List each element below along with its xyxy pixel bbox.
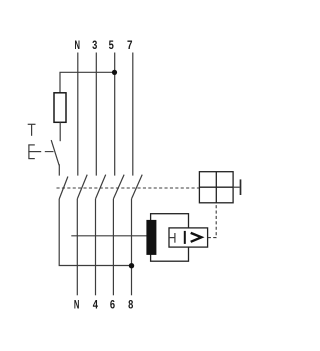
wire current transformer primary line: [71, 235, 146, 237]
trip relay symbol greater-than: [191, 233, 202, 242]
terminal label 3 top: [92, 38, 97, 52]
svg-text:N: N: [74, 298, 80, 312]
dashed actuator link to test contact: [45, 151, 54, 153]
trip unit enclosure box: [151, 214, 189, 262]
wire pole 7 upper: [132, 53, 134, 176]
main contact blade pole N: [77, 175, 87, 199]
svg-text:3: 3: [92, 38, 97, 52]
mechanism handle lead: [233, 186, 240, 188]
main contact blade pole 7-8: [132, 175, 143, 199]
resistor (test resistor): [54, 93, 66, 123]
dashed mechanism linkage: [57, 187, 200, 189]
trip relay box: [169, 228, 208, 247]
wire test branch lower: [59, 199, 131, 266]
wire resistor bottom lead: [59, 122, 61, 141]
test button label T: [28, 124, 36, 136]
trip relay symbol I: [184, 231, 186, 244]
wire pole 5 upper: [114, 53, 116, 176]
test contact blade: [51, 140, 59, 176]
terminal label 6 bottom: [110, 298, 115, 312]
terminal label N top: [75, 38, 81, 52]
terminal label 8 bottom: [128, 298, 133, 312]
main contact blade pole 5-6: [113, 175, 124, 199]
test button manual actuator symbol: [28, 145, 41, 159]
wire pole N lower: [76, 199, 78, 295]
svg-text:6: 6: [110, 298, 115, 312]
terminal label 4 bottom: [93, 298, 98, 312]
terminal label 5 top: [109, 38, 114, 52]
trip relay input lead: [169, 233, 175, 243]
svg-text:8: 8: [128, 298, 133, 312]
svg-text:N: N: [75, 38, 81, 52]
wire pole N upper: [77, 53, 79, 176]
wire pole 6 lower: [112, 199, 114, 295]
wire pole 8 lower: [131, 199, 133, 295]
main contact blade test branch: [59, 177, 68, 200]
mechanism box: [199, 172, 233, 203]
wire pole 4 lower: [95, 199, 97, 295]
mechanism handle tick: [240, 179, 242, 195]
current transformer core: [146, 220, 156, 255]
svg-text:5: 5: [109, 38, 114, 52]
node junction on pole 8: [129, 263, 134, 268]
node junction on line 5: [112, 70, 117, 75]
svg-text:4: 4: [93, 298, 98, 312]
terminal label N bottom: [74, 298, 80, 312]
terminal label 7 top: [127, 38, 133, 52]
main contact blade pole 3-4: [96, 175, 106, 199]
svg-text:7: 7: [127, 38, 133, 52]
dashed link relay to mechanism: [208, 203, 216, 238]
wire pole 3 upper: [95, 53, 97, 176]
wire test branch from line 5 to resistor: [60, 72, 115, 93]
